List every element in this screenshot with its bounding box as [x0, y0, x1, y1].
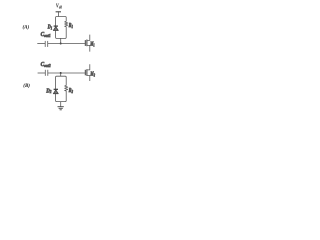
node stub A — [60, 38, 62, 43]
wire B left — [38, 72, 46, 74]
svg-text:(A): (A) — [23, 25, 30, 30]
capacitor Cout2 — [45, 70, 48, 76]
junction dot A — [60, 43, 62, 45]
svg-text:D2: D2 — [45, 88, 51, 94]
Vdd power symbol — [56, 11, 61, 16]
transistor M2 — [85, 64, 90, 81]
svg-text:Cout1: Cout1 — [41, 32, 51, 38]
svg-text:M2: M2 — [90, 71, 95, 77]
transistor M1 — [85, 35, 90, 52]
diode D2 — [53, 89, 58, 93]
svg-text:R2: R2 — [68, 88, 73, 94]
svg-text:Vdd: Vdd — [56, 4, 63, 10]
svg-text:(B): (B) — [23, 84, 30, 89]
diode D1 — [53, 26, 58, 30]
wire A right — [48, 43, 85, 45]
ground — [58, 102, 64, 110]
wire loop A with resistor R1 zigzag in right branch — [56, 17, 68, 39]
node stub B — [60, 73, 62, 76]
svg-text:M1: M1 — [90, 42, 95, 48]
wire A left — [37, 43, 45, 45]
svg-text:D1: D1 — [47, 24, 52, 30]
wire loop B with resistor R2 zigzag in right branch — [56, 76, 68, 101]
svg-text:Cout2: Cout2 — [41, 62, 51, 68]
svg-text:R1: R1 — [68, 23, 73, 29]
junction dot B — [60, 72, 62, 74]
capacitor Cout1 — [45, 41, 48, 47]
wire B right — [48, 72, 85, 74]
